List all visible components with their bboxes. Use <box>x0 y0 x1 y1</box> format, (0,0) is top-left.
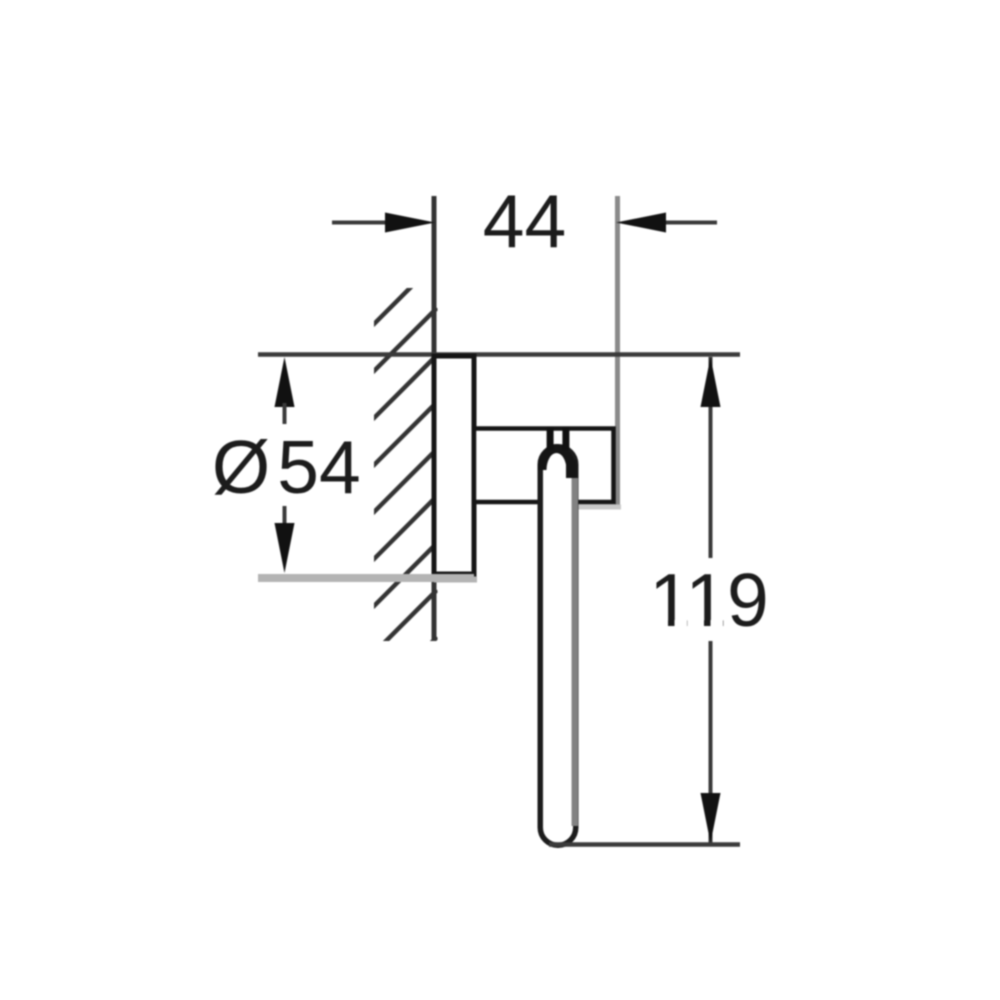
dimension 44 right extension line <box>615 196 620 505</box>
ring pivot neck <box>547 427 554 450</box>
dimension 44 left arrow line <box>332 221 390 225</box>
dimension 119 top arrowhead <box>701 357 721 407</box>
dimension 119 line lower segment <box>709 641 713 843</box>
dimension 119 line upper segment <box>709 357 713 558</box>
diameter 54 bottom extension line <box>258 574 474 582</box>
diameter 54 top arrow <box>275 357 295 407</box>
dimension 44 left arrowhead <box>385 213 435 233</box>
diameter 54 bottom arrow <box>283 506 287 530</box>
wall line <box>432 196 437 641</box>
escutcheon plate <box>434 356 474 574</box>
diameter 54 extension under plate <box>434 577 477 583</box>
ring right edge gray <box>572 478 579 826</box>
shadow line under holder body <box>577 505 621 510</box>
svg-text:44: 44 <box>483 179 566 263</box>
dimension 44 right arrow line <box>666 221 717 225</box>
svg-text:54: 54 <box>277 425 360 509</box>
dimension 119 bottom arrowhead <box>701 793 721 843</box>
svg-text:Ø: Ø <box>212 425 270 509</box>
svg-text:119: 119 <box>649 558 769 642</box>
dimension 44 right arrowhead <box>616 213 666 233</box>
ring cap crown fill <box>538 444 576 470</box>
paper holder ring <box>540 447 576 846</box>
wall hatching <box>370 261 437 704</box>
dimension 119 bottom extension line <box>549 842 740 847</box>
holder body <box>474 429 614 503</box>
top shared extension line <box>258 352 740 357</box>
